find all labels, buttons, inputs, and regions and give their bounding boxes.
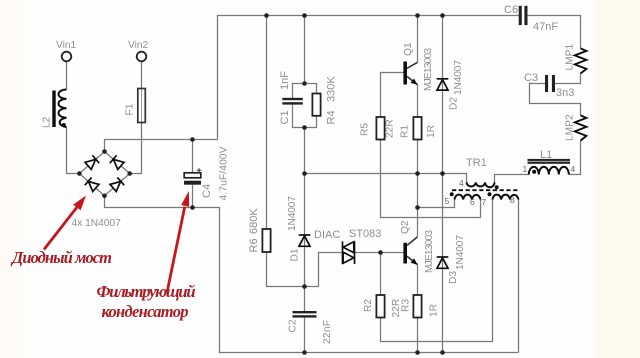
resistor R1 [413, 117, 421, 140]
node bridge left [77, 171, 82, 176]
transistor Q1 [403, 62, 417, 85]
wire DC+ from bridge top to riser [105, 140, 218, 152]
bridge diode BR1a (top-left arm) [85, 155, 99, 169]
svg-text:Q1: Q1 [403, 42, 414, 56]
svg-text:D2: D2 [449, 97, 460, 110]
wire C1R4 to mid bus [304, 128, 306, 174]
node mid bus / D2-D3 [440, 171, 445, 176]
wire C1R4 column from top bus [304, 16, 306, 84]
svg-text:4x 1N4007: 4x 1N4007 [72, 218, 122, 229]
bridge diode BR1b (top-right arm) [110, 155, 124, 169]
node mid bus / C1R4 [302, 171, 307, 176]
node mid bus / R1-Q2 [415, 171, 420, 176]
svg-text:1nF: 1nF [279, 71, 291, 90]
wire bridge bottom to ground rail [105, 196, 519, 353]
capacitor C4 top plate [184, 173, 201, 178]
transistor Q2 [403, 237, 417, 265]
capacitor C4 bottom plate [184, 181, 201, 185]
svg-text:1R: 1R [429, 304, 440, 317]
svg-text:C3: C3 [524, 72, 538, 84]
lamp filament LMP1 [575, 48, 587, 73]
wire bridge edge bottom-right [105, 174, 130, 196]
transformer TR1 core [452, 189, 519, 191]
annotation arrow to diode bridge [44, 196, 86, 250]
diode D2 [437, 79, 449, 90]
transformer TR1 winding 5-6 polarity dot [450, 192, 454, 196]
node bridge bottom [102, 194, 107, 199]
annotation arrow to filter capacitor [167, 191, 189, 293]
svg-text:D3: D3 [448, 271, 459, 284]
svg-text:1: 1 [523, 164, 528, 174]
node top bus / C1R4 [302, 13, 307, 18]
node top bus / Q1 collector [415, 13, 420, 18]
wire R1 through mid bus to Q2 collector [417, 140, 419, 237]
svg-text:R6: R6 [248, 238, 260, 252]
svg-text:Диодный мост: Диодный мост [10, 248, 112, 267]
wire TR1 pin5 to emitter column [418, 200, 455, 208]
svg-text:C2: C2 [288, 319, 299, 332]
svg-text:Q2: Q2 [400, 220, 411, 234]
transformer TR1 primary polarity dot [495, 185, 499, 189]
node emitter column / pin5 [415, 205, 420, 210]
wire LMP1 bottom to C3 [555, 74, 581, 84]
wire R2 top lead [380, 253, 382, 296]
wire Q2 emitter to R3 [417, 265, 419, 295]
fuse F1 [138, 89, 146, 123]
inductor L1 polarity dot [532, 170, 536, 174]
wire Vin1 to L2 [66, 61, 68, 89]
svg-text:L2: L2 [42, 116, 53, 128]
wire top bus right segment [528, 16, 581, 49]
svg-text:R1: R1 [400, 125, 411, 138]
svg-text:680K: 680K [248, 208, 260, 234]
node rail / R3 [415, 350, 420, 355]
terminal Vin2 [137, 52, 147, 62]
node rail / D3 [440, 350, 445, 355]
wire bridge edge top-left [79, 152, 104, 174]
wire L1 right to lamp circuit [569, 141, 581, 175]
svg-text:R5: R5 [360, 123, 371, 136]
wire bridge edge top-right [105, 152, 130, 174]
svg-text:Vin1: Vin1 [56, 40, 77, 51]
wire mid bus through D3 to rail [442, 174, 444, 353]
diode D1 [299, 235, 311, 246]
svg-text:4: 4 [459, 178, 464, 188]
node C4 minus [190, 205, 195, 210]
svg-text:R3: R3 [401, 299, 412, 312]
node top bus / D2 [440, 13, 445, 18]
transformer TR1 winding 7-8 polarity dot [488, 192, 492, 196]
transformer TR1 winding 5-6 [455, 195, 481, 200]
bridge diode BR1d (bottom-right arm) [110, 177, 124, 191]
svg-text:47nF: 47nF [533, 21, 558, 33]
node C1R4 bottom [302, 125, 307, 130]
svg-text:1N4007: 1N4007 [455, 235, 466, 270]
wire L2 to bridge left corner [67, 127, 80, 174]
inductor L2 winding [59, 90, 67, 128]
node C4 plus [190, 137, 195, 142]
svg-text:C4: C4 [201, 184, 213, 198]
svg-text:конденсатор: конденсатор [102, 302, 189, 321]
wire R6 bottom to node D1A [267, 252, 305, 287]
svg-text:1N4007: 1N4007 [453, 60, 464, 95]
svg-text:4: 4 [571, 164, 576, 174]
node Q2 base / R2 [378, 250, 383, 255]
wire Q1 base to R5 [381, 73, 404, 118]
svg-text:22nF: 22nF [322, 320, 333, 344]
svg-text:C1: C1 [279, 110, 291, 124]
wire TR1 pin8 to rail [518, 200, 520, 353]
wire R6 column from top bus [266, 16, 268, 230]
svg-text:6: 6 [470, 197, 475, 207]
svg-text:C6: C6 [504, 4, 518, 16]
wire Vin2 to F1 [141, 61, 143, 88]
wire C3 left to LMP2 top [530, 84, 581, 116]
svg-text:MJE13003: MJE13003 [424, 230, 435, 273]
capacitor C6 plates [519, 6, 528, 25]
node bridge top [102, 149, 107, 154]
inductor L2 polarity dot [62, 123, 66, 127]
inductor L2 core [52, 91, 55, 128]
capacitor C3 plates [545, 75, 555, 92]
svg-text:TR1: TR1 [466, 157, 487, 169]
capacitor C4 plus mark [197, 168, 201, 172]
wire DIAC right lead to Q2 base [355, 252, 404, 254]
wire C1R4 bottom connector [293, 105, 317, 128]
wire C4 top lead [192, 140, 194, 173]
inductor L1 winding [529, 167, 569, 175]
resistor R5 [376, 117, 384, 140]
inductor L1 core [528, 159, 571, 164]
svg-text:ST083: ST083 [349, 228, 381, 240]
wire F1 to bridge right corner [130, 123, 142, 174]
terminal Vin1 [62, 52, 72, 62]
transformer TR1 winding 7-8 [493, 195, 519, 200]
resistor R6 [262, 229, 270, 252]
wire D2 column from top bus to mid bus [442, 16, 444, 174]
resistor R2 [376, 295, 384, 318]
wire mid bus through D1 to C2 [304, 174, 306, 312]
diac ST083 [343, 241, 355, 264]
svg-text:22R: 22R [385, 119, 396, 138]
wire Q1 emitter to R1 [417, 85, 419, 117]
bridge diode BR1c (bottom-left arm) [85, 177, 99, 191]
wire top bus left segment [218, 16, 519, 140]
capacitor C1 plates [282, 98, 303, 105]
wire TR1 top winding right to L1 [495, 175, 529, 183]
wire mid bus [305, 174, 467, 183]
lamp filament LMP2 [575, 115, 587, 140]
resistor R3 [413, 295, 421, 318]
wire C4 bottom lead [192, 185, 194, 208]
svg-text:7: 7 [482, 197, 487, 207]
svg-text:5: 5 [445, 196, 450, 206]
svg-text:Фильтрующий: Фильтрующий [97, 282, 196, 301]
node bridge right [127, 171, 132, 176]
resistor R4 [312, 94, 320, 116]
svg-text:LMP2: LMP2 [565, 114, 576, 141]
svg-text:1R: 1R [426, 125, 437, 138]
node rail / C2 [302, 350, 307, 355]
wire R3 to rail [417, 318, 419, 353]
svg-text:4.7uF/400V: 4.7uF/400V [219, 146, 230, 200]
wire C1R4 top connector [293, 84, 317, 100]
wire C2 to rail [304, 318, 306, 353]
svg-text:Vin2: Vin2 [128, 40, 149, 51]
svg-text:D1: D1 [290, 248, 301, 261]
wire Q1 collector column [417, 16, 419, 63]
wire bridge edge bottom-left [79, 174, 104, 196]
wire DIAC left lead to node D1A [305, 253, 343, 287]
svg-text:L1: L1 [540, 149, 552, 161]
transformer TR1 primary winding (pin 4) [467, 183, 495, 188]
svg-text:DIAC: DIAC [314, 229, 340, 241]
wire R5 bottom to TR1 pin6 [381, 140, 481, 218]
wire R2 bottom to TR1 pin7 [381, 200, 493, 342]
svg-text:330K: 330K [326, 76, 338, 102]
svg-text:MJE13003: MJE13003 [423, 48, 434, 91]
node C1R4 top [302, 81, 307, 86]
node top bus / R6 [264, 13, 269, 18]
svg-text:R4: R4 [326, 110, 338, 124]
diode D3 [437, 257, 449, 268]
svg-text:F1: F1 [125, 103, 136, 115]
svg-text:R2: R2 [363, 299, 374, 312]
svg-text:1N4007: 1N4007 [287, 196, 298, 231]
svg-text:8: 8 [510, 195, 515, 205]
node D1 anode [302, 284, 307, 289]
capacitor C2 plates [293, 311, 317, 318]
svg-text:3n3: 3n3 [556, 87, 574, 99]
svg-text:LMP1: LMP1 [565, 44, 576, 71]
